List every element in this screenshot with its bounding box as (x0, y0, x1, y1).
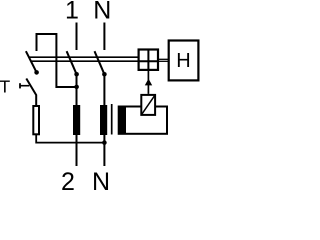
node N test junction (102, 140, 107, 145)
terminal label 1 (top) (65, 0, 79, 25)
label T (test button) (0, 77, 11, 97)
terminal label 2 (bottom) (61, 168, 75, 196)
terminal label N (top) (93, 0, 111, 25)
test button contact lower blade (26, 79, 36, 107)
wire mechanism to handle double line (159, 59, 169, 61)
node test contact hinge (34, 70, 39, 75)
svg-text:N: N (93, 0, 111, 25)
CT primary winding pole N (100, 105, 107, 135)
wire test-circuit bracket (phase tap over mechanism to test contact) (37, 34, 77, 87)
svg-text:N: N (92, 168, 110, 194)
CT primary winding pole L (73, 105, 80, 135)
label H (handle) (176, 50, 190, 72)
mechanism latch square crossed (138, 49, 159, 71)
svg-text:1: 1 (65, 0, 79, 25)
wire pole L upper (terminal 1 to switch) (76, 23, 78, 51)
wire pole L lower (to terminal 2) (76, 135, 78, 166)
switch contact pole L blade (67, 51, 77, 74)
node phase test tap junction (74, 85, 79, 90)
wire pole N lower (to terminal N) (103, 135, 105, 166)
node pole N blade hinge (102, 72, 107, 77)
CT core line (111, 104, 113, 135)
trip relay box with diagonal (141, 95, 155, 115)
svg-text:H: H (176, 50, 190, 72)
switch contact pole N blade (95, 51, 105, 74)
node pole L blade hinge (74, 72, 79, 77)
svg-text:T: T (0, 77, 11, 97)
wire pole L middle (hinge to CT winding) (76, 74, 78, 106)
resistor R test (33, 106, 39, 134)
test button contact upper blade (26, 51, 37, 72)
wire pole N middle (hinge to CT winding) (103, 74, 105, 106)
CT secondary winding (118, 106, 124, 135)
handle box H (169, 41, 199, 81)
trip coil housing box (125, 107, 167, 134)
mechanism bar double line upper (29, 56, 139, 58)
wire trip relay to mechanism with arrow (145, 71, 152, 94)
wire pole N upper (terminal N to switch) (103, 23, 105, 51)
svg-text:2: 2 (61, 168, 75, 194)
wire resistor to N junction (36, 135, 104, 143)
mechanism bar double line lower (31, 60, 139, 62)
test button actuator (20, 83, 29, 88)
terminal label N (bottom) (92, 168, 110, 196)
